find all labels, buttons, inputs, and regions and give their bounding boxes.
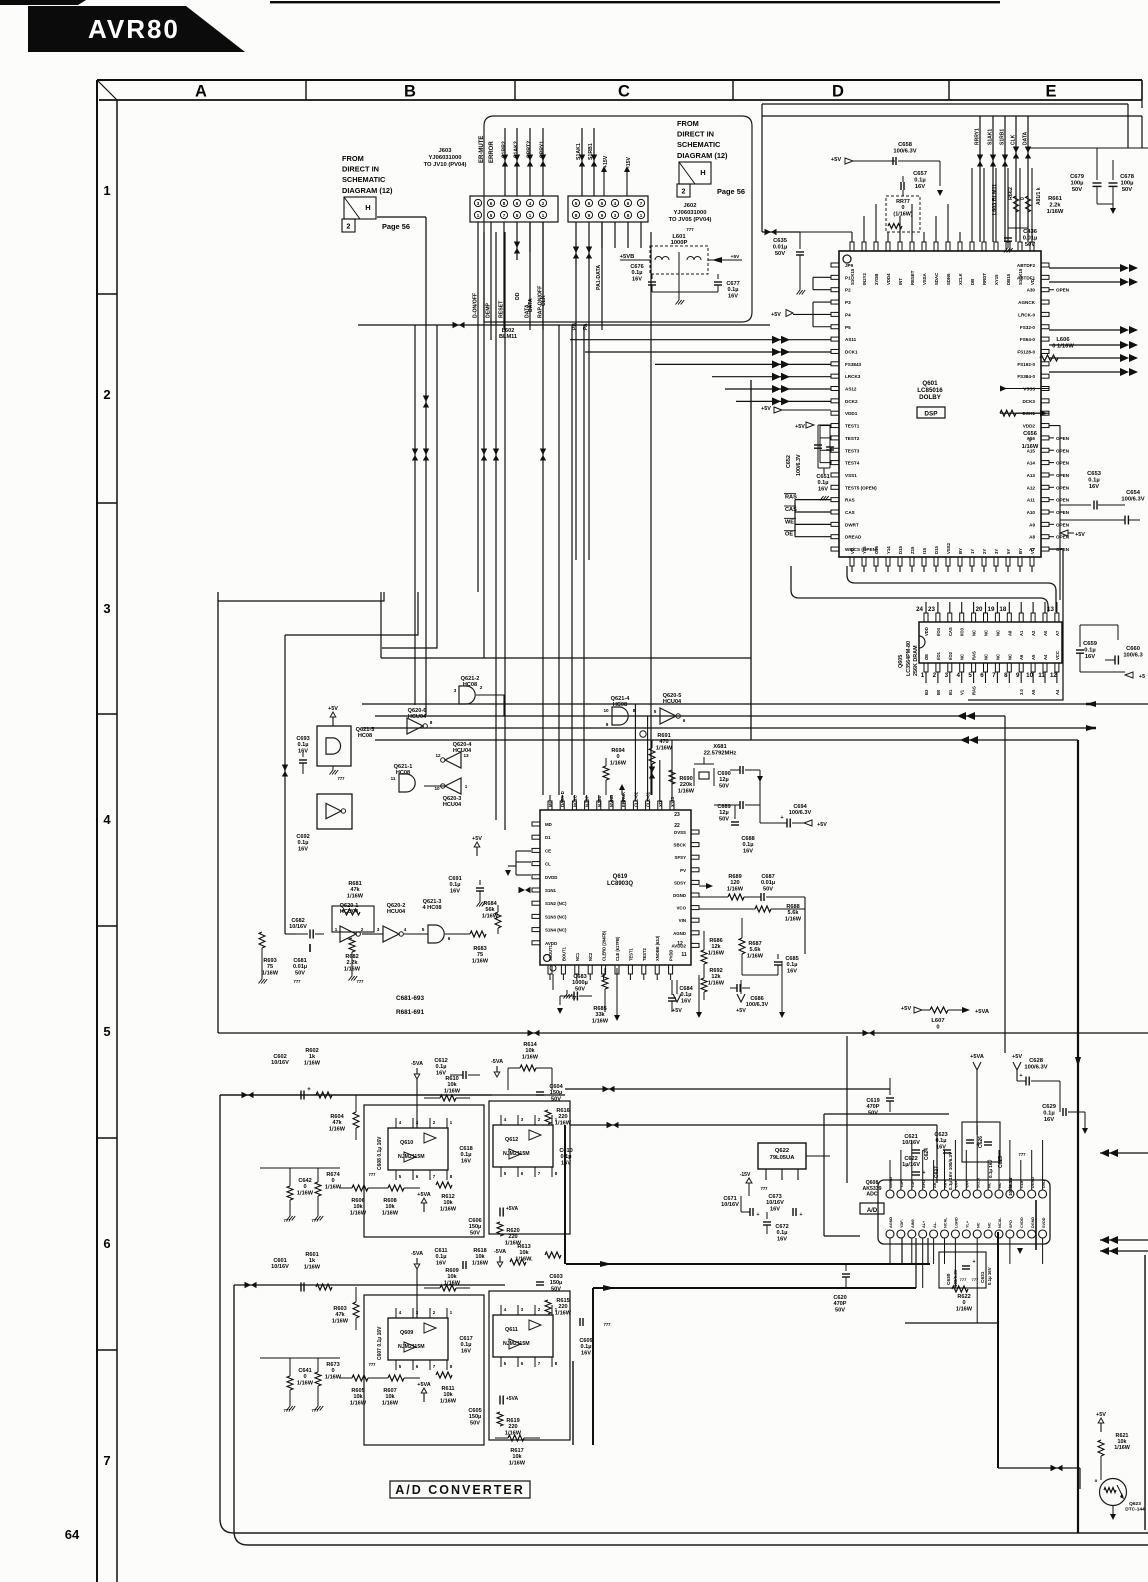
svg-text:1/16W: 1/16W [522,1054,539,1060]
svg-text:DATA: DATA [1023,131,1029,145]
svg-text:A10: A10 [1027,510,1036,515]
svg-text:150µ: 150µ [469,1224,482,1230]
svg-text:16V: 16V [915,184,925,190]
svg-text:11: 11 [681,952,687,958]
svg-text:C686: C686 [750,996,763,1002]
svg-text:AGND: AGND [673,931,686,936]
svg-text:470P: 470P [866,1104,879,1110]
svg-text:OPEN: OPEN [1056,461,1070,466]
svg-text:TEST5 (OPEN): TEST5 (OPEN) [845,485,877,490]
svg-text:S1N4 (NC): S1N4 (NC) [545,928,567,933]
R661 resistor [1014,196,1019,212]
svg-text:RRRY1: RRRY1 [975,128,981,145]
+5VA arrow lower [423,1393,425,1402]
svg-text:CLE (617FB): CLE (617FB) [615,936,620,961]
svg-text:R617: R617 [510,1448,523,1454]
Q622 79L05UA regulator [758,1143,806,1169]
svg-text:+5V: +5V [795,424,805,430]
svg-text:VCO: VCO [676,906,686,911]
svg-text:DD: DD [515,292,521,300]
svg-text:0: 0 [1028,437,1031,443]
connector J603 [470,196,558,222]
svg-text:1k: 1k [309,1258,316,1264]
svg-text:1000µ: 1000µ [572,980,588,986]
svg-text:+5V: +5V [731,254,740,260]
svg-text:+5V: +5V [1075,532,1085,538]
svg-text:SDSY: SDSY [674,880,686,885]
svg-text:C621: C621 [904,1134,917,1140]
svg-text:1/16W: 1/16W [1114,1445,1130,1451]
svg-text:0: 0 [331,1178,334,1184]
svg-text:NC: NC [984,630,989,636]
svg-text:1/16W: 1/16W [1047,209,1064,215]
svg-text:Q623: Q623 [1129,1501,1141,1507]
svg-text:100/6.3V: 100/6.3V [1024,1064,1047,1070]
DCK1 resistor [1000,410,1016,416]
thick bus horizontals bottom [566,1263,930,1265]
svg-text:VDD1: VDD1 [845,411,858,416]
svg-text:L607: L607 [931,1018,944,1024]
svg-text:VDD4: VDD4 [886,273,891,285]
svg-text:1k: 1k [309,1054,316,1060]
op-amp box Q610 [364,1105,484,1237]
svg-text:23: 23 [674,812,680,818]
svg-text:10k: 10k [385,1394,395,1400]
svg-text:NCAL: NCAL [998,1217,1002,1228]
svg-text:Q619: Q619 [613,874,628,880]
svg-text:FS192-0: FS192-0 [1017,362,1035,367]
svg-text:OPEN: OPEN [1056,498,1070,503]
svg-text:1/16W: 1/16W [555,1310,572,1316]
svg-text:3: 3 [945,672,949,679]
svg-text:Q620-3: Q620-3 [443,796,462,802]
svg-text:R609: R609 [445,1268,458,1274]
svg-text:Q622: Q622 [775,1148,789,1154]
svg-text:50V: 50V [295,970,305,976]
svg-text:A8: A8 [1007,630,1012,636]
svg-text:A4: A4 [1055,689,1060,695]
svg-text:10k: 10k [519,1250,529,1256]
svg-text:1/16W: 1/16W [382,1400,399,1406]
Q601 bottom pins [850,557,854,566]
svg-text:CAS: CAS [948,627,953,636]
svg-text:777: 777 [1019,1152,1027,1157]
svg-text:CL: CL [545,862,551,867]
svg-text:A11: A11 [1027,498,1036,503]
svg-text:0.1µ: 0.1µ [436,1254,447,1260]
svg-text:C631: C631 [980,1271,986,1283]
-5VA arrow top [416,1068,418,1074]
+5V arrow C694 [804,820,812,826]
svg-text:NC: NC [1007,654,1012,660]
svg-text:J602: J602 [684,203,697,209]
svg-text:3: 3 [103,601,110,616]
svg-text:1/16W: 1/16W [325,1184,342,1190]
svg-text:C672: C672 [775,1224,788,1230]
-5VA arrow lower [416,1258,418,1264]
svg-text:16V: 16V [632,276,642,282]
op IC Q601 LC85016 DSP body [839,251,1041,557]
svg-text:1/16W: 1/16W [785,916,802,922]
svg-text:16V: 16V [561,1160,571,1166]
svg-text:S1AK2: S1AK2 [514,141,520,158]
svg-text:OPEN: OPEN [1056,473,1070,478]
svg-text:+5V: +5V [1012,1054,1022,1060]
svg-text:V1: V1 [960,689,965,695]
svg-text:0.1µ: 0.1µ [728,287,739,293]
svg-text:18: 18 [999,606,1006,613]
svg-text:+: + [977,1142,980,1148]
svg-text:4: 4 [103,812,111,827]
svg-text:10k: 10k [443,1200,453,1206]
svg-text:777: 777 [357,979,365,984]
svg-text:777: 777 [572,995,580,1000]
svg-text:ERROR: ERROR [489,141,495,163]
svg-text:-5VA: -5VA [411,1251,423,1257]
svg-text:(1/16W): (1/16W) [893,211,912,217]
svg-text:1/16W: 1/16W [678,788,695,794]
svg-text:XY15: XY15 [994,274,999,285]
svg-text:47k: 47k [335,1312,345,1318]
svg-text:NC: NC [960,654,965,660]
svg-text:9: 9 [1016,672,1020,679]
svg-text:OE: OE [924,654,929,660]
svg-text:JP9: JP9 [845,263,854,268]
svg-text:2: 2 [361,927,364,932]
svg-text:-5VA: -5VA [411,1061,423,1067]
svg-text:777: 777 [312,1218,320,1223]
svg-text:C656: C656 [1023,431,1038,437]
svg-text:16V: 16V [450,888,460,894]
wires from bundle to DSP left pins [570,339,831,341]
svg-text:3: 3 [377,927,380,932]
svg-text:BY: BY [958,548,963,554]
svg-text:C682: C682 [291,918,304,924]
svg-text:100/6.3V: 100/6.3V [789,810,812,816]
svg-text:0.1µ: 0.1µ [1088,477,1099,483]
svg-text:R622: R622 [957,1294,970,1300]
vertical bus drops from DSP zone [750,380,752,740]
svg-text:TO JV10 (PV04): TO JV10 (PV04) [424,162,467,168]
svg-text:C630: C630 [946,1273,952,1285]
svg-text:47k: 47k [332,1120,342,1126]
svg-text:R619: R619 [506,1418,519,1424]
svg-text:C608 0.1µ 16V: C608 0.1µ 16V [377,1136,383,1170]
svg-text:C673: C673 [768,1194,781,1200]
svg-text:Q601: Q601 [922,380,938,387]
svg-text:LRCK-0: LRCK-0 [1018,312,1035,317]
svg-text:C684: C684 [679,986,693,992]
svg-text:P5: P5 [845,325,851,330]
svg-text:+5V: +5V [817,822,827,828]
svg-text:DEMP: DEMP [486,302,492,318]
svg-text:PB: PB [572,323,578,330]
svg-text:C679: C679 [1070,174,1085,180]
svg-text:R618: R618 [473,1248,486,1254]
svg-text:SDAC: SDAC [934,273,939,285]
svg-text:1/16W: 1/16W [347,893,364,899]
svg-text:1/16W: 1/16W [747,953,764,959]
svg-text:CE: CE [545,848,551,853]
svg-text:12µ: 12µ [719,777,728,783]
svg-text:50V: 50V [1072,187,1082,193]
top edge black strip [0,0,86,5]
svg-text:H: H [365,203,370,212]
svg-text:220: 220 [558,1304,567,1310]
svg-text:DIAGRAM (12): DIAGRAM (12) [677,151,728,160]
svg-text:47k: 47k [350,887,360,893]
svg-text:0: 0 [331,1368,334,1374]
svg-text:1/16W: 1/16W [727,886,744,892]
svg-text:1/16W: 1/16W [472,958,489,964]
svg-text:D15: D15 [934,546,939,554]
svg-text:R694: R694 [611,748,625,754]
svg-text:+: + [923,1170,926,1176]
svg-text:2: 2 [682,189,686,196]
svg-text:5.6k: 5.6k [788,910,800,916]
svg-text:12: 12 [435,753,441,758]
svg-text:DIRECT IN: DIRECT IN [342,165,379,174]
svg-text:C641: C641 [298,1368,311,1374]
svg-text:Y15: Y15 [862,546,867,554]
svg-text:0: 0 [303,1184,306,1190]
svg-text:5.6k: 5.6k [750,947,762,953]
svg-text:0.1µ: 0.1µ [743,842,754,848]
svg-text:R601: R601 [305,1252,318,1258]
svg-text:0: 0 [962,1300,965,1306]
svg-text:10k: 10k [447,1274,457,1280]
right edge arrows mid [1100,1035,1148,1037]
svg-text:C687: C687 [761,874,774,880]
svg-text:DCK3: DCK3 [1022,399,1035,404]
svg-text:C601: C601 [273,1258,286,1264]
svg-text:C622: C622 [904,1156,917,1162]
svg-text:VD: VD [1030,279,1035,285]
svg-text:C683: C683 [573,974,586,980]
svg-text:FS64-0: FS64-0 [1020,337,1036,342]
svg-text:R674: R674 [326,1172,340,1178]
svg-text:2YDB: 2YDB [874,274,879,285]
mid rails to ADC [565,1088,890,1090]
bus of DSP right A-pins to DRAM [968,549,1063,700]
svg-text:0.01µ: 0.01µ [773,244,788,250]
svg-text:I/O2: I/O2 [948,651,953,660]
svg-text:S1CK15: S1CK15 [1018,268,1023,285]
svg-text:AVDD: AVDD [545,941,557,946]
svg-text:C692: C692 [296,834,309,840]
svg-text:100µ: 100µ [1120,180,1133,186]
svg-text:50V: 50V [719,816,729,822]
wires below J603 with labels [377,216,426,218]
svg-text:16V: 16V [298,846,308,852]
svg-text:R681-691: R681-691 [396,1009,425,1016]
svg-text:+5: +5 [1139,674,1145,680]
svg-text:VDD2: VDD2 [1023,424,1036,429]
svg-text:+5V: +5V [328,706,338,712]
svg-text:DREAD: DREAD [845,535,862,540]
long bus lines row3-4 [362,703,1148,705]
RAM Q605 LC3564PM-80 body [919,622,1062,663]
svg-text:0.1µ: 0.1µ [914,177,925,183]
svg-text:HCU04: HCU04 [663,699,682,705]
RAM bottom pins [924,663,928,672]
svg-text:5Y: 5Y [1006,549,1011,554]
svg-text:A/D CONVERTER: A/D CONVERTER [395,1483,524,1497]
svg-text:+: + [780,815,783,821]
svg-text:DIAGRAM (12): DIAGRAM (12) [342,186,393,195]
svg-text:D1: D1 [545,835,551,840]
L601 filter dashed box [650,246,708,274]
RR77 dashed [886,196,920,232]
op-amp box Q612 [489,1101,570,1234]
svg-text:TEST3: TEST3 [845,448,860,453]
svg-text:R686: R686 [709,938,722,944]
ADC pin stubs [889,1160,891,1190]
svg-text:13: 13 [1047,606,1054,613]
svg-text:Q620-4: Q620-4 [453,742,473,748]
bus line verticals at left [361,704,363,728]
svg-text:XD: XD [658,801,663,807]
svg-text:S1RB1: S1RB1 [588,143,594,160]
svg-text:E: E [1045,83,1056,101]
svg-text:1000P: 1000P [671,240,688,246]
svg-text:Page 56: Page 56 [717,187,745,196]
svg-text:1/16W: 1/16W [440,1206,457,1212]
svg-text:6: 6 [683,718,686,723]
svg-text:ADC: ADC [866,1192,877,1198]
svg-text:S1AK1: S1AK1 [988,129,994,145]
svg-text:C693: C693 [296,736,309,742]
svg-text:0.1µ: 0.1µ [450,882,461,888]
+5V to P group [793,313,813,315]
svg-text:10k: 10k [475,1254,485,1260]
svg-text:12: 12 [677,941,683,947]
svg-text:TO JV05 (PV04): TO JV05 (PV04) [669,217,712,223]
svg-text:10/16V: 10/16V [289,924,307,930]
ADC pin rows [886,1190,894,1198]
svg-text:+5V: +5V [672,1008,682,1014]
svg-text:A/D: A/D [867,1208,878,1214]
svg-text:HCU04: HCU04 [443,802,462,808]
svg-text:C619: C619 [866,1098,879,1104]
svg-text:75: 75 [477,952,483,958]
svg-text:5: 5 [654,709,657,714]
svg-text:R605: R605 [351,1388,364,1394]
OPEN tags right side [1049,289,1054,291]
svg-text:A12: A12 [1027,485,1036,490]
svg-text:16V: 16V [1089,484,1099,490]
svg-text:12k: 12k [711,944,721,950]
svg-text:0.1µ: 0.1µ [581,1344,592,1350]
svg-text:A9: A9 [1029,522,1035,527]
svg-text:1/16W: 1/16W [304,1264,321,1270]
svg-text:C604: C604 [549,1084,563,1090]
svg-text:8: 8 [430,720,433,725]
Q601 right pins [1041,263,1049,267]
svg-text:777: 777 [686,227,694,232]
svg-text:16V: 16V [770,1206,780,1212]
svg-text:12: 12 [1050,672,1057,679]
svg-text:79L05UA: 79L05UA [770,1155,796,1161]
op IC Q619 LC8903Q body [540,810,691,965]
svg-text:2: 2 [933,672,937,679]
svg-text:16V: 16V [787,968,797,974]
svg-text:0.1µ: 0.1µ [777,1230,788,1236]
svg-text:TEST1: TEST1 [845,424,860,429]
svg-text:+5V: +5V [1096,1412,1106,1418]
svg-text:X681: X681 [713,744,727,750]
svg-text:C611: C611 [434,1248,447,1254]
svg-text:1: 1 [465,784,468,789]
svg-text:3.0: 3.0 [1019,689,1024,695]
svg-text:0.1µ: 0.1µ [436,1064,447,1070]
svg-text:50V: 50V [470,1420,480,1426]
svg-text:19: 19 [988,606,995,613]
svg-text:1/16W: 1/16W [304,1060,321,1066]
svg-text:Q621-1: Q621-1 [394,764,413,770]
svg-text:BY: BY [1018,548,1023,554]
svg-text:C671: C671 [723,1196,736,1202]
svg-text:R681: R681 [348,881,361,887]
svg-text:R684: R684 [483,901,497,907]
svg-text:10: 10 [1026,672,1033,679]
svg-text:OPEN: OPEN [1056,436,1070,441]
svg-text:YDF-: YDF- [900,1218,904,1228]
svg-text:50V: 50V [719,783,729,789]
svg-text:R604: R604 [330,1114,344,1120]
svg-text:+5VA: +5VA [506,1396,519,1402]
long rail y=1033 [218,1032,1148,1034]
svg-text:0.1µ: 0.1µ [298,742,309,748]
svg-text:RESET: RESET [910,270,915,285]
svg-text:SPD: SPD [1009,1220,1013,1228]
RAS CAS WE OE stubs [795,499,831,501]
svg-text:CLERD (294FB): CLERD (294FB) [602,930,607,961]
svg-text:A30: A30 [1027,288,1036,293]
svg-text:+5VA: +5VA [417,1382,431,1388]
svg-text:CAS: CAS [845,510,855,515]
svg-text:777: 777 [761,1186,769,1191]
svg-text:-15V: -15V [626,157,632,168]
svg-text:16V: 16V [777,1236,787,1242]
svg-text:16V: 16V [681,998,691,1004]
svg-text:+5VB: +5VB [620,254,635,260]
svg-text:OPEN: OPEN [1056,448,1070,453]
svg-text:Q612: Q612 [505,1137,518,1143]
thick bus verticals bottom [1077,740,1079,1533]
TEST pins wires [820,425,831,427]
svg-text:DOLBY: DOLBY [919,394,942,401]
svg-text:AS11: AS11 [845,337,857,342]
svg-text:1/16W: 1/16W [332,1318,349,1324]
svg-text:VSS1: VSS1 [845,473,857,478]
svg-text:0.1µ: 0.1µ [632,270,643,276]
svg-text:Q610: Q610 [400,1140,413,1146]
svg-text:H: H [700,168,705,177]
svg-text:L603 BLM11: L603 BLM11 [992,184,998,215]
svg-text:FROM: FROM [342,154,364,163]
svg-text:AL-: AL- [933,1221,937,1228]
svg-text:IN2Y2: IN2Y2 [862,272,867,285]
svg-text:OPEN: OPEN [1056,510,1070,515]
svg-text:LC8903Q: LC8903Q [607,881,633,887]
svg-text:Q605: Q605 [898,655,904,668]
svg-text:C618: C618 [459,1146,472,1152]
svg-text:Q611: Q611 [505,1327,518,1333]
svg-text:1: 1 [335,927,338,932]
svg-text:INT: INT [898,278,903,285]
svg-text:C629: C629 [1042,1104,1057,1110]
